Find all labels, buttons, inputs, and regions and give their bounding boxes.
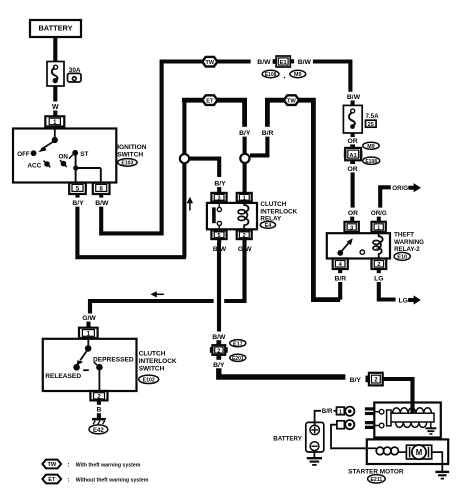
stub pin6 xyxy=(99,194,103,198)
svg-text:B/R: B/R xyxy=(322,408,333,415)
theft warning relay-2 body xyxy=(327,232,390,259)
solenoid blade terminals row 1 xyxy=(365,407,374,415)
svg-text:BATTERY: BATTERY xyxy=(273,435,302,442)
svg-text:E4: E4 xyxy=(265,223,272,229)
svg-text:2: 2 xyxy=(217,349,220,355)
arrow left (current direction G/W) xyxy=(150,291,163,297)
wire battery to fusible link xyxy=(53,37,57,62)
connector oval E10 xyxy=(394,252,410,260)
svg-text:SWITCH: SWITCH xyxy=(117,151,143,158)
clutch interlock relay pin 2 xyxy=(237,230,252,239)
theft warning relay pin 4 xyxy=(333,259,348,270)
connector oval M9 (below E1) xyxy=(290,70,306,78)
node A (splice circle) xyxy=(180,154,189,163)
motor M xyxy=(406,445,431,459)
wire G/W relay pin2 to clutch switch xyxy=(90,243,245,314)
svg-text:ACC: ACC xyxy=(28,163,42,170)
svg-text:E211: E211 xyxy=(370,477,382,483)
ground (clutch switch) xyxy=(92,419,106,424)
solenoid coil and core xyxy=(391,408,435,428)
svg-text:BATTERY: BATTERY xyxy=(38,24,72,33)
connector oval E42 xyxy=(89,425,108,434)
svg-text:E108: E108 xyxy=(265,72,277,78)
svg-text:25: 25 xyxy=(368,122,374,128)
wire node A vertical xyxy=(182,100,186,257)
wire battery to connector 1 xyxy=(315,411,337,425)
stub pin4 theft relay xyxy=(338,269,342,273)
wire fuse to OR xyxy=(351,133,355,137)
solenoid plunger xyxy=(387,410,391,426)
svg-text:OR: OR xyxy=(348,210,358,217)
svg-text:B/R: B/R xyxy=(334,275,346,282)
wire OR/G to pin 1 theft relay xyxy=(377,217,381,222)
wire W to connector 1 xyxy=(53,111,57,118)
solenoid contact 1 xyxy=(374,409,384,414)
legend tag TW xyxy=(42,460,61,469)
clutch interlock relay pin 3 xyxy=(211,193,226,202)
svg-text:E102: E102 xyxy=(143,378,155,384)
clutch interlock relay pin 5 xyxy=(211,230,226,239)
svg-text:INTERLOCK: INTERLOCK xyxy=(260,208,297,215)
tag TW (second) xyxy=(284,95,299,105)
svg-text::: : xyxy=(68,477,70,483)
wire ET run (node A to B/Y branch) xyxy=(184,100,244,127)
field coil xyxy=(367,447,407,455)
svg-text:E42: E42 xyxy=(93,428,104,434)
svg-text:B/W: B/W xyxy=(347,94,361,101)
svg-text:ET: ET xyxy=(206,98,214,104)
connector oval E211 xyxy=(368,475,386,484)
wire B to ground xyxy=(97,413,101,418)
svg-text:E10: E10 xyxy=(397,255,407,261)
svg-text:B/Y: B/Y xyxy=(239,130,251,137)
svg-text:ON: ON xyxy=(59,154,69,161)
connector 1 (ignition feed) xyxy=(45,116,64,126)
wire B/R pin4 down to TW run xyxy=(338,282,342,300)
clutch interlock relay pin 1 xyxy=(237,193,252,202)
svg-text:B/Y: B/Y xyxy=(72,200,84,207)
ground (starter motor) xyxy=(435,464,449,479)
wire B/W relay pin5 down xyxy=(217,243,221,332)
wire B/Y pin5 down-right to node vertical xyxy=(77,207,186,258)
fusible link FL 30A xyxy=(47,62,64,87)
wire motor to ground xyxy=(432,452,443,464)
wire OR/G branch xyxy=(380,187,391,207)
wire fusible link to connector 1 xyxy=(53,86,57,102)
wire B/W to connector 2 xyxy=(216,340,221,345)
theft warning relay pin 2 xyxy=(372,259,387,270)
dot separator xyxy=(284,77,286,79)
connector oval E102 xyxy=(139,375,159,384)
clutch interlock switch pin 2 xyxy=(90,391,107,400)
svg-text:OR/G: OR/G xyxy=(371,210,387,217)
stub pin5 relay xyxy=(217,239,221,243)
connector oval M9 (A1) xyxy=(363,142,379,150)
wire OR to pin 3 theft relay xyxy=(350,217,354,222)
svg-text:ST: ST xyxy=(80,151,88,158)
svg-text:TW: TW xyxy=(205,60,214,66)
wire B/W pin6 down-right-up to top run xyxy=(101,62,250,234)
label IGNITION SWITCH xyxy=(117,144,147,159)
svg-text:B/W: B/W xyxy=(95,200,109,207)
connector 2 (starter B/Y) xyxy=(366,373,383,386)
ground (inside solenoid) xyxy=(425,422,436,434)
svg-text:2: 2 xyxy=(377,262,380,268)
svg-text:5: 5 xyxy=(218,233,221,239)
svg-text:E103: E103 xyxy=(121,161,133,167)
arrow LG (off-page right) xyxy=(408,295,421,304)
svg-text:B/Y: B/Y xyxy=(213,362,225,369)
battery (bottom) xyxy=(306,422,324,452)
tag TW (top run) xyxy=(202,57,217,67)
svg-text:B/W: B/W xyxy=(212,334,226,341)
svg-text:TW: TW xyxy=(287,98,296,104)
clutch interlock switch pin 1 xyxy=(79,328,98,338)
wire connector 2 to solenoid xyxy=(383,379,413,414)
pin 6 ignition xyxy=(93,183,110,194)
label 7.5A with fuse number 25 xyxy=(366,113,380,128)
svg-text:OR/G: OR/G xyxy=(392,185,408,192)
node B (splice circle) xyxy=(240,154,249,163)
svg-text:G/W: G/W xyxy=(82,315,96,322)
fuse 7.5A xyxy=(343,105,362,133)
svg-text:WARNING: WARNING xyxy=(394,239,424,246)
connector oval E103 xyxy=(118,159,137,167)
wire connector 2 down xyxy=(216,355,221,360)
wire B/R down-left into node B xyxy=(250,137,267,156)
svg-text:W: W xyxy=(52,104,59,111)
svg-text:SWITCH: SWITCH xyxy=(139,365,165,372)
svg-text:Without theft warning system: Without theft warning system xyxy=(76,477,149,483)
ground (battery) xyxy=(307,452,322,465)
label CLUTCH INTERLOCK RELAY xyxy=(260,201,297,222)
wire B/Y to node B xyxy=(243,137,247,154)
svg-text:E1: E1 xyxy=(280,60,288,66)
svg-text::: : xyxy=(68,462,70,468)
wire A1 to OR xyxy=(350,160,355,164)
svg-text:RELEASED: RELEASED xyxy=(45,373,81,380)
pin 5 ignition xyxy=(69,183,86,194)
wire node B to relay pin 1 xyxy=(243,163,247,194)
svg-text:RELAY-2: RELAY-2 xyxy=(394,246,420,253)
legend text with theft warning xyxy=(68,462,141,468)
wire G/W to switch pin 1 xyxy=(86,322,90,329)
svg-text:E17: E17 xyxy=(233,341,243,347)
svg-text:ET: ET xyxy=(48,477,56,483)
arrow OR/G (off-page right) xyxy=(408,183,421,192)
svg-text:1: 1 xyxy=(243,196,246,202)
svg-text:DEPRESSED: DEPRESSED xyxy=(93,356,134,363)
clutch interlock relay body xyxy=(207,202,257,231)
svg-text:LG: LG xyxy=(399,298,408,305)
ring terminal row 2 xyxy=(345,420,354,429)
stub pin5 xyxy=(75,194,79,198)
svg-text:TW: TW xyxy=(47,462,56,468)
svg-text:1: 1 xyxy=(339,409,342,415)
wire B/W E1 to fuse xyxy=(313,62,351,92)
connector oval E108 (A1) xyxy=(363,157,380,165)
legend text without theft warning xyxy=(68,477,149,483)
svg-text:E108: E108 xyxy=(365,159,377,165)
label 30A with fusible-link symbol xyxy=(68,67,82,82)
svg-text:CLUTCH: CLUTCH xyxy=(139,351,166,358)
stub pin2 theft relay xyxy=(377,269,381,273)
svg-text:B: B xyxy=(96,407,101,414)
ignition switch xyxy=(13,129,116,183)
label THEFT WARNING RELAY-2 xyxy=(394,232,424,253)
clutch interlock switch body xyxy=(43,338,137,391)
svg-text:B/Y: B/Y xyxy=(214,180,226,187)
svg-text:2: 2 xyxy=(243,233,246,239)
connector oval E17 xyxy=(230,340,246,348)
svg-text:1: 1 xyxy=(377,225,380,231)
svg-text:With theft warning system: With theft warning system xyxy=(76,462,141,468)
connector oval E4 xyxy=(260,222,275,230)
wire B/Y to relay pin 3 xyxy=(217,187,221,194)
connector 2 (E17/E201) xyxy=(210,345,228,355)
arrow up (current direction B/Y) xyxy=(187,197,193,211)
svg-text:7.5A: 7.5A xyxy=(366,113,380,120)
solenoid contact 2 xyxy=(374,423,384,428)
svg-text:3: 3 xyxy=(350,225,353,231)
svg-text:INTERLOCK: INTERLOCK xyxy=(139,358,177,365)
svg-text:LG: LG xyxy=(374,275,383,282)
connector oval E108 (below E1) xyxy=(262,70,279,78)
starter motor box xyxy=(367,439,448,464)
connector 1 (B/R battery lead) xyxy=(337,407,345,415)
svg-text:E201: E201 xyxy=(232,356,244,362)
connector oval E201 xyxy=(230,354,246,362)
wire OR down to relay area xyxy=(351,172,355,207)
svg-text:M: M xyxy=(416,448,423,457)
legend tag ET xyxy=(42,475,61,484)
wire B/Y down and right (thick run) xyxy=(219,368,346,377)
ring terminal row 1 xyxy=(345,407,354,416)
theft warning relay pin 3 xyxy=(345,222,359,232)
connector E1 xyxy=(273,56,294,67)
label CLUTCH INTERLOCK SWITCH xyxy=(139,351,177,373)
wire node A to relay pin 3 xyxy=(189,159,219,177)
wire TW run (B/R branch over to theft relay side) xyxy=(267,100,340,299)
stub pin2 relay xyxy=(242,239,246,243)
svg-text:OR: OR xyxy=(347,138,357,145)
svg-text:M9: M9 xyxy=(367,144,375,150)
svg-text:A1: A1 xyxy=(349,153,357,159)
stub switch pin2 xyxy=(97,400,101,404)
wire row2 to starter motor xyxy=(331,425,367,449)
wire OR to A1 xyxy=(350,144,355,148)
connector A1 xyxy=(344,148,363,160)
svg-text:IGNITION: IGNITION xyxy=(117,144,147,151)
battery (top) xyxy=(30,20,81,37)
svg-text:B/W: B/W xyxy=(298,59,312,66)
svg-text:B/W: B/W xyxy=(257,59,271,66)
svg-text:CLUTCH: CLUTCH xyxy=(260,201,286,208)
svg-text:M9: M9 xyxy=(294,72,302,78)
wire LG to off-page xyxy=(379,282,396,300)
svg-text:OR: OR xyxy=(347,166,357,173)
starter solenoid box xyxy=(374,403,441,438)
svg-text:OFF: OFF xyxy=(17,151,30,158)
svg-text:B/Y: B/Y xyxy=(350,377,362,384)
svg-text:3: 3 xyxy=(218,196,221,202)
terminal box row 2 xyxy=(337,421,345,429)
solenoid blade terminals row 2 xyxy=(365,421,374,429)
wire to fuse xyxy=(351,101,355,107)
tag ET xyxy=(202,95,217,105)
svg-text:B/R: B/R xyxy=(262,130,274,137)
theft warning relay pin 1 xyxy=(372,222,386,232)
svg-text:THEFT: THEFT xyxy=(394,232,414,239)
